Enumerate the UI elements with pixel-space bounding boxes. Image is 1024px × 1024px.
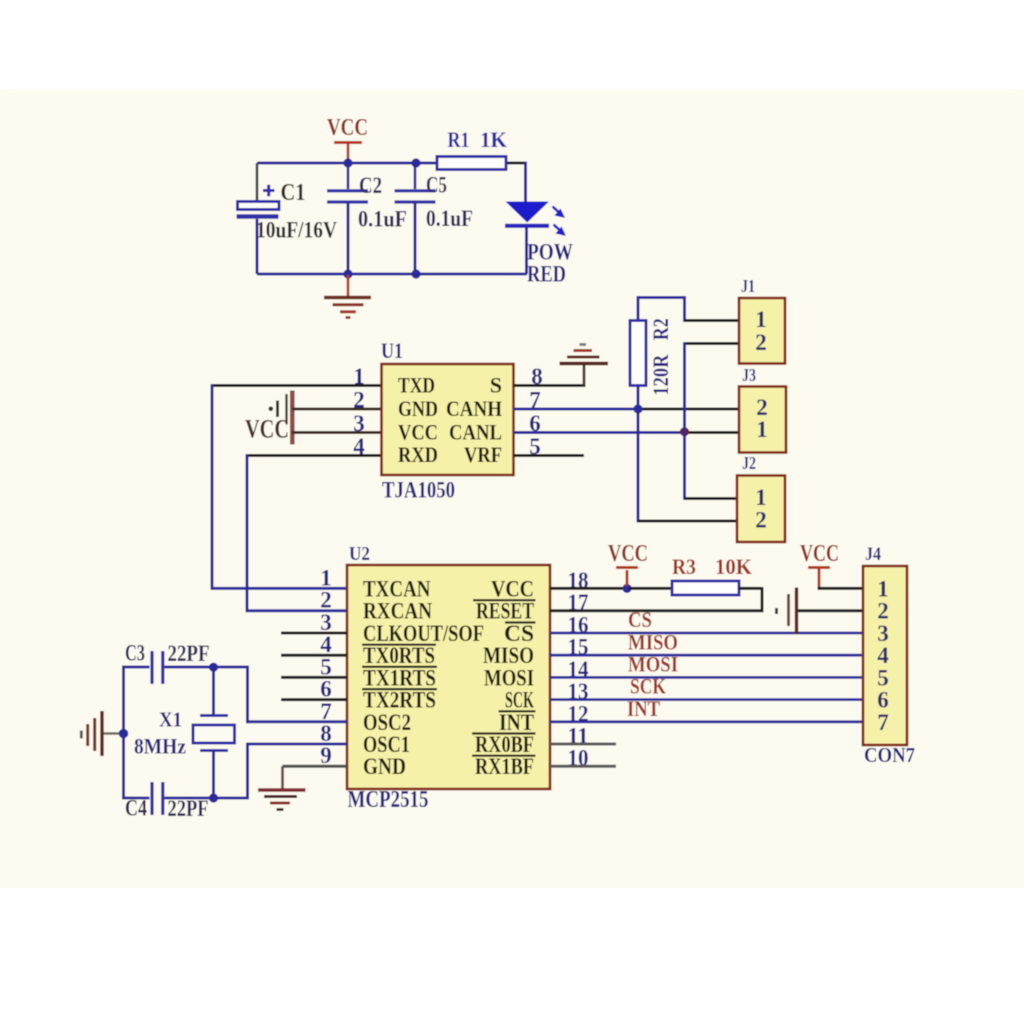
pin number U1-3: [353, 411, 365, 436]
svg-text:1: 1: [877, 576, 889, 601]
wire top rail VCC: [257, 162, 527, 203]
svg-text:7: 7: [877, 710, 889, 735]
svg-text:U1: U1: [381, 338, 403, 363]
connector J1: [739, 276, 785, 364]
ground (crystal, sideways): [81, 711, 121, 756]
node junction above crystal: [209, 663, 218, 672]
pin number U2-12: [568, 701, 589, 726]
pin number U1-1: [353, 364, 365, 389]
pin number U2-15: [568, 635, 589, 660]
capacitor C5: [395, 163, 474, 274]
wire U2 pin18 VCC: [550, 587, 627, 590]
wire R2 bottom to J2 pin2: [638, 409, 737, 523]
wire U2 pin10 RX1BF stub: [550, 765, 616, 768]
node junction below crystal: [209, 793, 218, 802]
wire U2 pin3 CLKOUT stub: [281, 632, 347, 635]
ground (above U1 pin8): [560, 345, 609, 364]
wire SCK U2 pin13 to J4 pin6: [550, 698, 863, 701]
overline RX0BF: [472, 732, 536, 734]
node junction top rail at C5: [411, 158, 420, 167]
wire U2 pin11 RX0BF stub: [550, 743, 616, 746]
wire crystal left vertical: [122, 666, 125, 800]
resistor R3 10K: [629, 554, 752, 595]
svg-text:1: 1: [756, 417, 768, 442]
pin number U1-8: [531, 364, 543, 389]
wire bottom rail: [257, 273, 527, 276]
node junction bottom rail at C5: [411, 269, 420, 278]
pin number J4-6: [877, 688, 889, 713]
svg-text:2: 2: [320, 588, 332, 613]
label MOSI: [628, 652, 678, 677]
svg-text:2: 2: [353, 388, 365, 413]
wire U1 pin3 VCC to VCC bar: [292, 431, 382, 434]
wire CANH U1 pin7 to J3: [514, 408, 740, 411]
pin number U2-13: [568, 679, 589, 704]
svg-text:22PF: 22PF: [168, 641, 210, 666]
pin number U2-16: [568, 613, 589, 638]
svg-text:VCC: VCC: [245, 415, 289, 444]
pin number U2-5: [320, 654, 332, 679]
wire J1 pin2 to J2 pin1 vertical: [685, 342, 740, 500]
svg-text:S: S: [490, 372, 502, 397]
wire OSC2 branch to U2 pin7: [246, 666, 347, 724]
overline TX0RTS: [362, 644, 436, 646]
node junction VCC/R3: [622, 584, 631, 593]
svg-text:U2: U2: [349, 543, 370, 565]
wire MOSI U2 pin14 to J4 pin5: [550, 676, 863, 679]
wire U1 pin1 TXD to U2 pin1 TXCAN: [211, 384, 382, 590]
svg-text:VCC: VCC: [608, 541, 648, 567]
pin number U1-6: [529, 411, 541, 436]
pin number U2-6: [320, 677, 332, 702]
pin number J4-1: [877, 576, 889, 601]
pin number U2-11: [568, 724, 589, 749]
pin number J4-3: [877, 621, 889, 646]
node junction CANL (dark red): [680, 427, 689, 436]
pin number U1-2: [353, 388, 365, 413]
wire U1 pin8 S to ground: [514, 364, 586, 386]
overline TX2RTS: [362, 688, 437, 690]
svg-text:1: 1: [320, 565, 332, 590]
wire R3 to U2 pin17 RESET: [550, 587, 764, 611]
svg-text:RED: RED: [527, 262, 566, 287]
svg-text:C3: C3: [125, 641, 145, 666]
wire MISO U2 pin15 to J4 pin4: [550, 654, 863, 657]
wire U1 pin2 GND to VCC bar: [292, 408, 382, 411]
capacitor C3 22PF: [124, 641, 248, 685]
svg-text:SCK: SCK: [630, 674, 666, 699]
wire INT U2 pin12 to J4 pin7: [550, 720, 863, 723]
svg-text:VCC: VCC: [327, 115, 368, 141]
label SCK: [630, 674, 666, 699]
pin number J4-2: [877, 599, 889, 624]
capacitor C4 22PF: [124, 782, 248, 821]
ground (J4 pin2, sideways): [777, 588, 864, 635]
svg-text:CS: CS: [628, 607, 652, 632]
svg-text:C2: C2: [359, 173, 382, 198]
svg-text:0.1uF: 0.1uF: [358, 207, 407, 232]
svg-text:C5: C5: [426, 173, 447, 198]
svg-text:INT: INT: [627, 696, 660, 721]
pin number U2-3: [320, 610, 332, 635]
label CS: [628, 607, 652, 632]
svg-text:120R: 120R: [648, 354, 673, 396]
svg-text:C1: C1: [281, 180, 306, 206]
svg-text:MCP2515: MCP2515: [348, 787, 429, 813]
svg-text:8MHz: 8MHz: [134, 734, 186, 759]
svg-text:RXD: RXD: [398, 442, 438, 467]
capacitor C1 (electrolytic): [237, 163, 338, 274]
svg-text:VCC: VCC: [398, 420, 438, 445]
pin number U2-1: [320, 565, 332, 590]
svg-text:J3: J3: [742, 365, 756, 385]
svg-text:22PF: 22PF: [168, 796, 209, 821]
node junction top rail at C2: [343, 158, 352, 167]
svg-text:J4: J4: [865, 544, 881, 565]
svg-text:0.1uF: 0.1uF: [426, 206, 473, 231]
connector J3: [739, 365, 786, 453]
label INT: [627, 696, 660, 721]
svg-text:R3: R3: [672, 554, 696, 579]
wire R2 top to J1 pin1: [685, 296, 740, 322]
svg-text:VRF: VRF: [464, 442, 502, 467]
svg-text:2: 2: [755, 330, 767, 355]
pin number U1-4: [353, 434, 365, 459]
node junction bottom rail at C2: [343, 269, 352, 278]
LED POW RED: [505, 202, 573, 287]
wire U1 pin5 VRF stub: [514, 454, 585, 457]
svg-text:9: 9: [320, 743, 332, 768]
svg-text:J2: J2: [742, 453, 756, 473]
label MISO: [628, 630, 678, 655]
overline TX1RTS: [362, 666, 437, 668]
svg-text:R2: R2: [648, 318, 673, 340]
pin number J4-5: [877, 665, 889, 690]
svg-text:RXCAN: RXCAN: [363, 599, 432, 624]
svg-text:VCC: VCC: [491, 576, 534, 601]
node junction CANH / R2: [633, 404, 642, 413]
pin number J4-7: [877, 710, 889, 735]
overline RESET: [473, 599, 536, 601]
ground (below C2): [324, 275, 371, 318]
svg-text:VCC: VCC: [800, 541, 839, 567]
pin number U2-17: [568, 590, 589, 615]
connector J2: [737, 453, 785, 542]
pin number U2-18: [568, 568, 589, 593]
overline INT: [499, 710, 536, 712]
overline RX1BF: [472, 755, 536, 757]
svg-text:1K: 1K: [480, 127, 507, 152]
svg-text:C4: C4: [125, 796, 147, 821]
pin number U2-10: [568, 746, 589, 771]
wire U2 pin6 TX2RTS stub: [281, 698, 347, 701]
pin number U2-7: [320, 699, 332, 724]
wire U1 pin4 RXD to U2 pin2 RXCAN: [246, 454, 382, 612]
wire U2 pin9 GND to ground: [283, 766, 348, 788]
wire VCC to J4 pin1: [818, 587, 864, 590]
IC U2 MCP2515: [347, 543, 550, 813]
svg-text:TJA1050: TJA1050: [382, 478, 455, 503]
resistor R1 1K: [437, 127, 507, 170]
svg-text:1: 1: [755, 307, 767, 332]
overline CS: [505, 621, 536, 623]
svg-text:1: 1: [353, 364, 365, 389]
pin number U2-9: [320, 743, 332, 768]
svg-text:2: 2: [755, 508, 767, 533]
power symbol VCC (U1 left): [245, 391, 292, 445]
wire CS U2 pin16 to J4 pin3: [550, 632, 863, 635]
resistor R2 120R: [630, 296, 686, 409]
pin number U2-2: [320, 588, 332, 613]
svg-text:CON7: CON7: [864, 743, 915, 767]
svg-text:CANL: CANL: [449, 420, 502, 445]
svg-text:X1: X1: [159, 708, 182, 732]
svg-text:TXD: TXD: [398, 372, 435, 397]
svg-text:RESET: RESET: [476, 599, 534, 624]
svg-text:CANH: CANH: [446, 396, 502, 421]
power symbol VCC (R3): [608, 541, 648, 586]
wire U2 pin5 TX1RTS stub: [281, 676, 347, 679]
node junction crystal left: [119, 729, 129, 739]
svg-text:RX1BF: RX1BF: [475, 754, 534, 779]
svg-text:R1: R1: [448, 127, 470, 152]
svg-text:GND: GND: [363, 754, 406, 779]
wire OSC1 branch to U2 pin8: [246, 743, 347, 800]
svg-text:10K: 10K: [715, 554, 752, 579]
svg-text:3: 3: [353, 411, 365, 436]
pin number U2-14: [568, 657, 589, 682]
svg-text:J1: J1: [741, 276, 755, 296]
connector J4 CON7: [863, 544, 915, 767]
ground (U2 pin9): [258, 790, 306, 810]
pin number U2-4: [320, 632, 332, 657]
power symbol VCC (top): [327, 115, 368, 162]
pin number J4-4: [877, 643, 889, 668]
wire U2 pin4 TX0RTS stub: [281, 654, 347, 657]
svg-text:GND: GND: [398, 396, 438, 421]
svg-text:2: 2: [877, 599, 889, 624]
svg-text:10uF/16V: 10uF/16V: [256, 218, 337, 243]
wire CANL U1 pin6 to J3: [514, 431, 740, 434]
power symbol VCC (J4): [800, 541, 839, 590]
IC U1 TJA1050: [381, 338, 514, 503]
pin number U2-8: [320, 721, 332, 746]
pin number U1-7: [529, 388, 541, 413]
capacitor C2: [327, 163, 407, 274]
pin number U1-5: [529, 434, 541, 459]
crystal X1 8MHz: [134, 667, 235, 798]
svg-text:1: 1: [755, 485, 767, 510]
svg-text:4: 4: [353, 434, 365, 459]
svg-text:TXCAN: TXCAN: [363, 576, 431, 601]
